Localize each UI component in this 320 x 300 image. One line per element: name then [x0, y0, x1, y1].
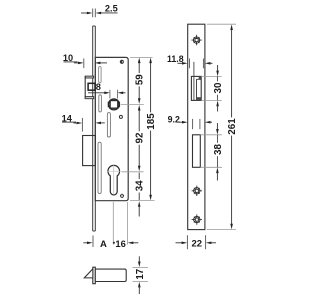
svg-text:17: 17: [135, 268, 146, 279]
dimension 16 (axis to case back): [113, 238, 138, 249]
dimension 10 (latch projection): [63, 53, 107, 68]
rivet top: [120, 60, 124, 64]
svg-text:59: 59: [135, 74, 146, 85]
svg-text:11.8: 11.8: [167, 54, 184, 64]
dimension 17 (case thickness): [133, 256, 148, 294]
dimension 11.8: [167, 54, 213, 69]
latch follower square: [88, 83, 95, 90]
deadbolt (thrown, side view): [83, 136, 96, 166]
dimension 185: [146, 58, 157, 201]
dimension 92: [135, 105, 146, 171]
dimension 9.2: [168, 114, 212, 129]
svg-text:22: 22: [192, 239, 203, 250]
svg-text:30: 30: [213, 82, 224, 93]
bottom view: case body: [95, 269, 126, 281]
rivet bottom x: [120, 194, 124, 198]
svg-text:34: 34: [135, 180, 146, 191]
dimension 38 (deadbolt cutout height): [200, 123, 224, 181]
faceplate front extension for A: [92, 236, 94, 248]
svg-text:A: A: [100, 239, 107, 250]
dimension 261 (plate height): [207, 24, 238, 229]
svg-text:38: 38: [213, 144, 224, 155]
bottom view: faceplate bar: [93, 267, 96, 284]
latch cutout (front view): [191, 62, 201, 101]
svg-text:261: 261: [227, 118, 238, 135]
screw hole bottom: [192, 214, 202, 224]
dimension 14 (deadbolt projection): [62, 113, 105, 131]
svg-text:185: 185: [146, 113, 157, 130]
deadbolt cutout (front view): [193, 135, 201, 168]
dimension 59: [135, 58, 146, 104]
slot B below 8 label: [99, 95, 102, 112]
svg-text:2.5: 2.5: [105, 3, 118, 13]
top guide slot: [99, 67, 102, 83]
dimension A (backset): [83, 239, 107, 250]
bottom view: latch bolt wedge: [84, 269, 93, 278]
svg-text:16: 16: [115, 238, 125, 249]
screw hole top: [191, 35, 201, 45]
lock case rectangle (side view): [95, 57, 128, 200]
dimension 34: [135, 173, 146, 217]
dimension 8 (follower square): [88, 90, 126, 99]
dimension 30 (latch cutout height): [201, 65, 224, 112]
dimension 2.5 (faceplate thickness): [81, 3, 118, 17]
rivet middle o: [119, 115, 122, 118]
middle slot: [107, 113, 110, 137]
screw hole middle: [192, 186, 202, 196]
top extension line of case: [130, 56, 153, 58]
faceplate strip (edge view, left side view): [93, 26, 96, 231]
svg-text:9.2: 9.2: [168, 114, 180, 124]
long lower slot beside cylinder: [98, 142, 101, 193]
dimension 22 (plate width): [176, 235, 217, 249]
cylinder centre extension line: [122, 171, 144, 173]
svg-text:8: 8: [96, 82, 101, 92]
svg-text:92: 92: [135, 132, 146, 143]
follower centre extension line: [121, 103, 144, 105]
latch bolt assembly (side view): [85, 76, 94, 99]
case bottom extension line: [130, 199, 155, 201]
follower hub (circle with square spindle hole): [108, 99, 119, 110]
right view: faceplate front: [188, 24, 205, 229]
extension lines below case (axis and back): [113, 202, 127, 245]
euro profile cylinder cutout: [108, 165, 120, 195]
